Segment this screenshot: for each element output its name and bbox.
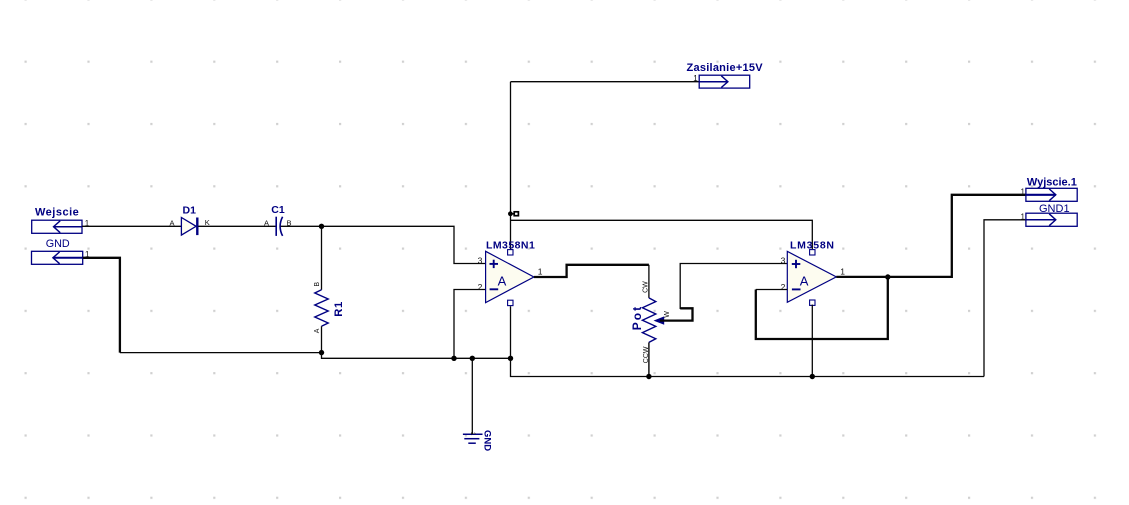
resistor R1	[314, 226, 345, 352]
wire U2 pin4 vertical	[811, 305, 813, 377]
node Pot bottom junction	[646, 374, 651, 379]
svg-text:Zasilanie+15V: Zasilanie+15V	[687, 62, 764, 74]
svg-text:2: 2	[478, 282, 483, 292]
ground GND symbol	[463, 430, 493, 451]
svg-text:CW: CW	[643, 281, 650, 293]
svg-text:A: A	[498, 274, 507, 289]
port GND1	[1021, 203, 1078, 226]
node junction with no-ERC marker	[508, 211, 518, 216]
wire U2 pin2	[756, 289, 788, 291]
op-amp U1 LM358N1	[478, 239, 543, 305]
diode D1	[170, 205, 210, 236]
wire rail jog down to lower rail	[511, 358, 985, 376]
svg-text:GND: GND	[46, 238, 70, 250]
port Zasilanie+15V	[687, 62, 764, 88]
svg-text:Wejscie: Wejscie	[35, 207, 79, 219]
svg-text:A: A	[264, 219, 269, 228]
svg-text:A: A	[170, 218, 175, 227]
wire GND stem	[471, 358, 473, 434]
port GND	[32, 238, 91, 264]
svg-text:K: K	[205, 218, 210, 227]
wire U1 output to Pot top (thick)	[534, 265, 649, 277]
node U2 pin4 rail junction	[810, 374, 815, 379]
svg-text:A: A	[800, 273, 809, 288]
svg-text:GND: GND	[482, 430, 493, 451]
svg-text:1: 1	[840, 266, 845, 276]
svg-text:1: 1	[469, 432, 476, 436]
port Wyjscie.1	[1021, 176, 1078, 201]
svg-text:W: W	[664, 311, 671, 318]
potentiometer Pot	[630, 265, 671, 377]
port Wejscie	[32, 207, 90, 234]
svg-text:2: 2	[781, 282, 786, 292]
wire Pot wiper jog (thick)	[660, 308, 693, 320]
wire ground run to R1 bottom	[120, 352, 322, 354]
wire wiper to U2 pin3	[680, 264, 787, 310]
wire U2 output to Wyjscie.1 (thick)	[836, 195, 1026, 277]
svg-text:B: B	[314, 282, 321, 287]
wire U2 feedback loop (thick)	[756, 277, 888, 339]
node R1 bottom junction	[319, 350, 324, 355]
wire V+ rail to U2 pin8	[511, 220, 813, 249]
svg-text:Wyjscie.1: Wyjscie.1	[1027, 176, 1077, 188]
svg-text:R1: R1	[333, 301, 345, 317]
wire GND1 to lower rail	[984, 220, 1026, 377]
wire jog down to rail	[322, 353, 511, 359]
node pin2-rail junction	[451, 356, 456, 361]
svg-text:3: 3	[781, 256, 786, 266]
svg-text:C1: C1	[271, 204, 285, 216]
wire U1 pin2 to rail	[454, 290, 486, 359]
svg-text:D1: D1	[183, 205, 197, 217]
svg-text:3: 3	[478, 256, 483, 266]
wire D1 cathode to C1	[198, 225, 275, 227]
node U2 output junction	[885, 274, 890, 279]
svg-text:A: A	[314, 328, 321, 333]
wire node A to op-amp U1 pin3	[322, 226, 486, 263]
wire Wejscie to D1 anode	[82, 225, 181, 227]
node GND-stem junction	[470, 356, 475, 361]
wire +15V horizontal	[511, 81, 700, 83]
wire GND port to ground rail (thick L)	[83, 258, 120, 353]
svg-text:1: 1	[538, 267, 543, 277]
wire C1 to node A	[281, 225, 322, 227]
svg-text:Pot: Pot	[630, 305, 644, 330]
node A junction	[319, 224, 324, 229]
node U1 power rail junction	[508, 356, 513, 361]
wire U1 pin4 vertical	[510, 306, 512, 358]
svg-text:1: 1	[693, 74, 698, 83]
capacitor C1	[264, 204, 292, 236]
op-amp U2 LM358N	[781, 240, 846, 306]
wire +15V vertical down to U1 pin8	[510, 82, 512, 250]
svg-text:1: 1	[1021, 187, 1026, 196]
svg-text:1: 1	[1021, 212, 1026, 221]
